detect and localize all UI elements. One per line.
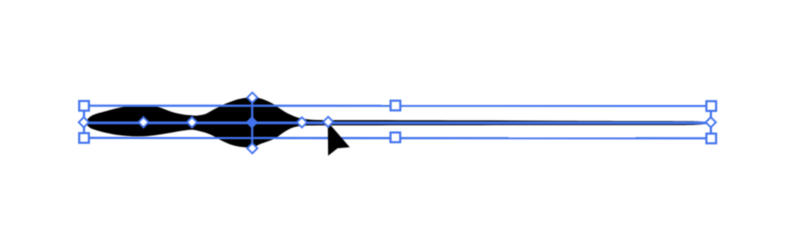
bbox handle top-middle	[391, 101, 401, 111]
bbox handle bottom-middle	[391, 133, 401, 143]
selection bounding-box bottom edge line	[84, 137, 711, 140]
anchor point left end	[79, 117, 89, 127]
black variable-width brush stroke shape	[85, 97, 709, 147]
bbox handle bottom-right	[706, 134, 716, 144]
width point 2	[187, 117, 197, 127]
selection bounding-box top edge line	[84, 105, 711, 107]
path spine line	[84, 122, 711, 125]
width handle bottom	[247, 143, 257, 153]
width handle top	[247, 93, 257, 103]
anchor point right end	[706, 117, 716, 127]
width point 3	[297, 117, 307, 127]
width point 1	[138, 117, 148, 127]
width point 4	[323, 117, 333, 127]
bbox handle top-right	[706, 101, 716, 111]
right vertical connector line	[710, 106, 712, 138]
left vertical connector line	[83, 106, 85, 138]
mouse cursor arrow	[328, 122, 350, 156]
selected width point (filled)	[246, 116, 258, 128]
bbox handle bottom-left	[79, 133, 89, 143]
middle vertical width-handle line	[251, 98, 253, 149]
bbox handle top-left	[79, 101, 89, 111]
